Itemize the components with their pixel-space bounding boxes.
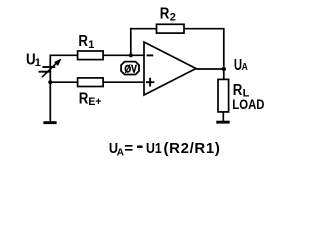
- svg-text:LOAD: LOAD: [232, 97, 264, 112]
- ground (input branch): [43, 121, 56, 124]
- label UA: [234, 57, 248, 74]
- svg-text:E+: E+: [88, 96, 101, 108]
- wire: R2 to output node: [184, 29, 224, 67]
- wire: R1 to summing node / inverting input: [103, 54, 144, 56]
- svg-text:R: R: [78, 33, 88, 50]
- op-amp plus sign: [146, 78, 154, 87]
- label U1: [26, 52, 41, 70]
- wire: input node vertical (source branch) and top run to R1: [50, 55, 77, 121]
- label R1: [78, 33, 94, 51]
- 0V virtual-ground bubble: [121, 62, 139, 75]
- svg-text:ØV: ØV: [124, 64, 136, 76]
- formula UA = -U1(R2/R1): [109, 140, 220, 159]
- svg-text:U1: U1: [146, 140, 162, 157]
- svg-text:A: A: [242, 62, 248, 73]
- svg-text:A: A: [117, 147, 125, 159]
- resistor R2: [157, 24, 185, 33]
- resistor R1: [78, 51, 104, 60]
- svg-text:(R2/R1): (R2/R1): [164, 140, 220, 157]
- junction: U1 / RE+ node: [48, 80, 52, 84]
- resistor RE+: [78, 78, 104, 87]
- op-amp minus sign: [147, 54, 154, 56]
- junction: output node: [222, 67, 226, 71]
- wire: output node down to RL: [223, 69, 225, 79]
- svg-text:=: =: [124, 140, 133, 157]
- svg-text:2: 2: [170, 12, 176, 24]
- ground (load branch): [216, 121, 229, 124]
- svg-text:R: R: [160, 6, 170, 23]
- junction: summing node: [129, 53, 133, 57]
- wire: op-amp output to output node: [196, 68, 224, 70]
- svg-text:1: 1: [35, 57, 41, 69]
- wire: RE+ node to RE+ resistor: [50, 81, 77, 83]
- op-amp: [144, 42, 196, 95]
- wire: RE+ to non-inverting input: [103, 81, 144, 83]
- svg-text:R: R: [79, 91, 89, 108]
- wire: RL to ground: [222, 112, 224, 121]
- label RE+: [79, 91, 102, 108]
- resistor RL (load): [218, 79, 229, 112]
- wire: feedback riser from summing node to R2: [131, 29, 157, 56]
- variable source U1 symbol (two ticks + adjustment arrow): [39, 60, 61, 78]
- label RL: [233, 82, 250, 100]
- svg-text:1: 1: [88, 39, 94, 51]
- label R2: [160, 6, 176, 24]
